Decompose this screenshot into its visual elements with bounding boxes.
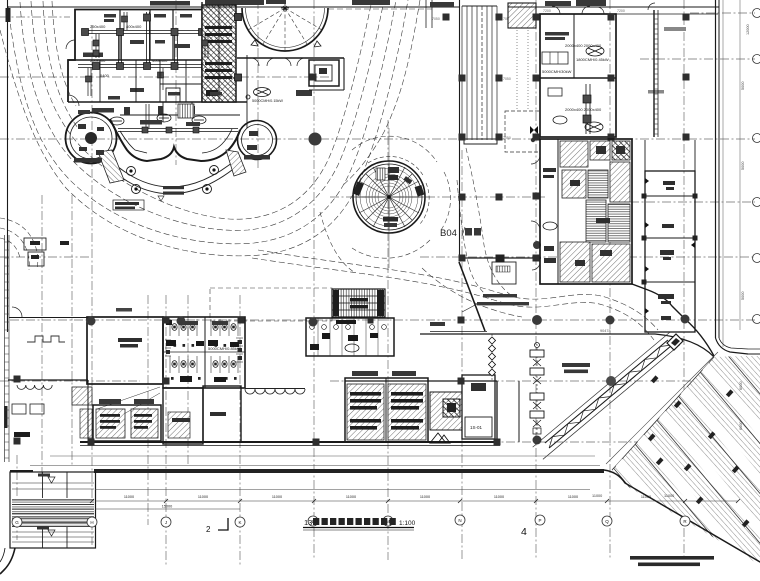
tower dashed ring: [368, 156, 424, 177]
svg-text:5000: 5000: [741, 162, 745, 170]
dashed site line top: [328, 8, 432, 10]
dashed plaza rectangle: [210, 288, 332, 321]
top boundary labels mid: [205, 0, 286, 5]
misc small labels top: [352, 0, 454, 7]
west building extra ducts: [88, 12, 208, 96]
svg-text:2000x400 2000x400: 2000x400 2000x400: [565, 43, 602, 48]
duct run upper: [78, 12, 232, 68]
svg-text:400x400: 400x400: [126, 24, 142, 29]
svg-text:2: 2: [206, 525, 211, 534]
east room labels: [658, 181, 675, 320]
se lobe ring: [238, 121, 277, 160]
svg-text:5000CMH/0.85kW: 5000CMH/0.85kW: [208, 346, 241, 351]
fan glyph west: [246, 88, 271, 100]
guardrail band: [94, 469, 604, 473]
tower spiral arcs: [366, 174, 412, 220]
parking aisles white: [577, 330, 760, 581]
svg-text:Q: Q: [605, 519, 609, 524]
notes: [630, 556, 714, 566]
wall ladder band e: [654, 10, 658, 137]
left edge concentric ramp arcs: [0, 218, 38, 270]
terrace survey targets: [127, 166, 219, 194]
ramp corridor lines: [533, 333, 670, 448]
small canopy arcs north: [251, 58, 305, 66]
columns row320 mid: [458, 317, 465, 324]
east road edge: [748, 353, 760, 355]
toilet right stall column: [165, 338, 243, 362]
east site wall: [715, 0, 717, 338]
svg-text:5000: 5000: [741, 292, 745, 300]
level annotation 15.280: [163, 186, 184, 195]
toilet stalls top: [170, 319, 238, 373]
gray circle ramp: [606, 376, 616, 386]
parking row dividers: [571, 314, 760, 581]
observation tower rings: [353, 161, 425, 233]
awning arcs mid: [245, 389, 305, 395]
toilet block: [163, 317, 245, 388]
south wall long: [80, 441, 340, 443]
svg-text:11000: 11000: [494, 495, 504, 499]
svg-text:11000: 11000: [272, 495, 282, 499]
bowtie valve: [530, 126, 538, 134]
parking cars: [648, 375, 750, 527]
fancoil ellipses mid: [110, 114, 206, 125]
stair rect plaza: [492, 262, 516, 284]
connecting wall east: [237, 57, 344, 59]
svg-text:11000: 11000: [198, 495, 208, 499]
svg-text:1:100: 1:100: [399, 520, 416, 527]
core block walls: [540, 139, 632, 284]
east dimension text: [741, 24, 750, 300]
lobe interior marks: [74, 106, 270, 163]
plaza circle markers: [309, 133, 322, 146]
svg-text:5000: 5000: [741, 82, 745, 90]
west rooms inner walls: [100, 60, 202, 102]
tower interior marks: [376, 168, 385, 180]
wall column squares: [235, 14, 242, 82]
canopy fan arc: [242, 8, 328, 51]
plaza diagonal wall: [459, 262, 485, 331]
svg-text:11000: 11000: [124, 495, 134, 499]
ne building main walls: [540, 14, 616, 137]
svg-text:5000CMH/30kW: 5000CMH/30kW: [542, 69, 572, 74]
svg-text:7050: 7050: [503, 77, 511, 81]
plaza columns row197: [459, 194, 466, 201]
hatch col below toilets: [168, 412, 190, 438]
terrace arcs: [110, 158, 238, 187]
plaza south edge: [420, 333, 655, 335]
stair band hatched: [202, 5, 236, 102]
svg-text:11000: 11000: [664, 494, 674, 498]
kitchen block: [306, 318, 394, 356]
ramp hatch se: [226, 150, 246, 176]
dashed arcs around tower: [352, 136, 451, 258]
sw corner road: [0, 548, 15, 574]
door arc west wall: [68, 95, 79, 106]
svg-text:P: P: [538, 518, 541, 523]
toilet block labels top: [180, 321, 228, 325]
east grid bubbles: [753, 9, 760, 447]
big room west: [87, 317, 163, 384]
duct run lobes: [118, 104, 238, 132]
dashed lobby rect: [505, 111, 540, 152]
se boundary curve: [632, 284, 714, 356]
escalator bank center: [332, 289, 385, 317]
duct labels ne: [542, 43, 609, 112]
avenue centerline: [606, 352, 718, 464]
stepped wall left: [27, 336, 65, 342]
svg-text:5000CMH/0.15kW: 5000CMH/0.15kW: [252, 99, 283, 103]
site line upper: [30, 465, 600, 467]
ne stair block: [508, 3, 536, 28]
svg-text:250x500: 250x500: [90, 58, 106, 63]
sw ramp block: [10, 472, 96, 548]
svg-text:G: G: [15, 520, 19, 525]
rooms below toilets: [163, 388, 203, 444]
ne columns: [533, 14, 690, 141]
svg-text:6000: 6000: [739, 422, 743, 430]
west building south wavy facade: [110, 119, 240, 161]
svg-text:2000x400 2000x400: 2000x400 2000x400: [565, 107, 602, 112]
svg-text:7050: 7050: [432, 17, 440, 21]
road curve loop around west building: [0, 0, 420, 256]
ahu equipment row: [542, 52, 568, 64]
top site line: [8, 6, 459, 8]
svg-text:11000: 11000: [420, 495, 430, 499]
wing top wall: [345, 380, 497, 382]
svg-text:11000: 11000: [592, 494, 602, 498]
travelator bank: [462, 6, 497, 144]
grid bubbles bottom: [12, 515, 690, 527]
svg-text:H: H: [90, 520, 93, 525]
wall stub row258: [459, 257, 541, 259]
entry labels: [477, 294, 590, 373]
core west rooms: [543, 168, 556, 263]
svg-text:7200: 7200: [543, 9, 551, 13]
west building outer walls: [68, 2, 247, 128]
plaza boundary line: [459, 0, 461, 259]
road curves middle to east: [252, 250, 658, 340]
core interior blobs: [570, 146, 625, 266]
svg-text:J: J: [165, 520, 167, 525]
sw lobe ring: [66, 113, 117, 164]
svg-text:11000: 11000: [641, 495, 651, 499]
parking south boundary: [560, 470, 760, 562]
wall east of elevator: [343, 58, 345, 90]
core hatch cells: [560, 141, 588, 167]
ramp hatch sw: [98, 150, 124, 183]
left low rooms: [8, 379, 88, 381]
hatched room e: [430, 392, 462, 430]
room text blobs top: [83, 0, 264, 113]
PAL label: [116, 308, 132, 312]
ahu room west: [93, 405, 161, 441]
mullion chain a: [491, 334, 493, 380]
svg-text:13: 13: [304, 518, 312, 527]
svg-text:15000: 15000: [162, 505, 173, 509]
svg-text:7050: 7050: [503, 136, 511, 140]
tower radial spokes: [356, 164, 422, 230]
canopy feet triangles: [251, 40, 321, 47]
ramp truss band: [545, 340, 668, 443]
east room door wedges: [645, 178, 695, 314]
svg-text:250x400: 250x400: [90, 24, 106, 29]
svg-text:K: K: [238, 520, 241, 525]
vertical duct ne: [586, 84, 590, 134]
elevator shaft: [309, 60, 339, 86]
svg-text:B04: B04: [440, 228, 457, 239]
duct fittings: [82, 14, 209, 70]
observation tower axes: [388, 128, 390, 268]
plaza dashed road curves: [457, 148, 512, 300]
small left rooms: [24, 238, 46, 250]
east room band: [644, 140, 646, 171]
svg-text:11000: 11000: [568, 495, 578, 499]
svg-text:6000: 6000: [739, 382, 743, 390]
frame left ruler: [7, 0, 9, 332]
svg-text:4: 4: [521, 526, 527, 538]
dimension chain: [95, 500, 738, 502]
svg-text:1S-01: 1S-01: [470, 425, 483, 430]
leader lines ahu: [97, 387, 160, 409]
ne building top text row: [545, 0, 606, 40]
door arcs ne: [552, 6, 604, 14]
ahu stack center: [345, 378, 428, 442]
mullion chain b: [536, 344, 538, 438]
svg-text:90478: 90478: [600, 329, 611, 333]
entrance wall: [518, 381, 520, 442]
parking dimension text: [739, 382, 743, 430]
ne corridor label: [664, 27, 686, 31]
svg-text:7200: 7200: [617, 9, 625, 13]
dashed arc west of tower: [320, 212, 354, 272]
label box south: [113, 200, 144, 210]
west building extra labels: [78, 14, 222, 126]
svg-text:6400: 6400: [100, 73, 110, 78]
toilet mid extra rows: [171, 344, 237, 380]
parking field edges: [612, 357, 714, 470]
svg-text:N: N: [458, 518, 461, 523]
svg-text:12000: 12000: [746, 24, 750, 35]
travelator columns: [443, 14, 503, 141]
ramp portal: [667, 334, 683, 350]
svg-text:1800CMH/0.45kW: 1800CMH/0.45kW: [576, 57, 609, 62]
small stair mid: [178, 104, 194, 118]
svg-text:11000: 11000: [346, 495, 356, 499]
curtain wall dotted: [517, 6, 528, 110]
room f: [462, 375, 495, 439]
fan symbols ne: [553, 46, 604, 132]
duct size labels: [90, 24, 222, 78]
door triangles south: [430, 433, 446, 443]
west corridor wall: [9, 317, 87, 319]
column markers row320: [87, 317, 96, 326]
